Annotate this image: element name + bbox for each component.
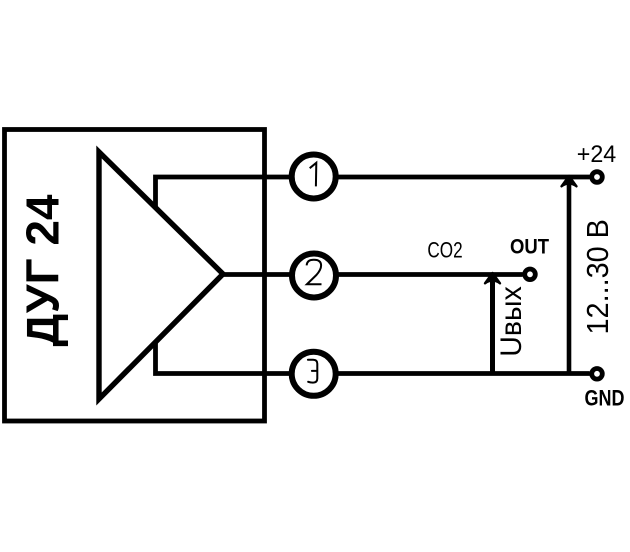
arrowhead up at +24 wire [562, 176, 577, 186]
terminal +24 open circle [592, 172, 603, 183]
wire pin2: from triangle apex to OUT terminal [222, 272, 523, 277]
svg-text:+24: +24 [577, 141, 616, 167]
pin number 1 [310, 163, 317, 187]
svg-text:GND: GND [585, 387, 625, 411]
svg-text:ДУГ 24: ДУГ 24 [17, 194, 69, 346]
arrowhead up at OUT wire [485, 273, 500, 283]
terminal circle pin 3 [292, 352, 336, 396]
device block U1 (ДУГ 24 sensor body) [5, 130, 265, 422]
svg-text:OUT: OUT [510, 235, 550, 259]
svg-text:12...30 В: 12...30 В [581, 219, 615, 334]
pin number 3 [308, 360, 317, 383]
wire pin3: from triangle bottom edge to GND terminal [156, 343, 590, 374]
svg-text:Uвых: Uвых [495, 286, 528, 357]
terminal circle pin 1 [292, 155, 336, 199]
wire pin1: from triangle top edge to +24 terminal [156, 177, 590, 208]
pin number 2 [307, 260, 322, 285]
transducer triangle symbol [99, 152, 223, 399]
terminal GND open circle [592, 369, 603, 380]
svg-text:CO2: CO2 [427, 239, 462, 264]
terminal circle pin 2 [292, 254, 336, 298]
terminal OUT open circle [525, 269, 536, 280]
Uvyh measure line between OUT wire and GND wire [490, 278, 495, 374]
supply measure line 12...30 B between +24 and GND [567, 179, 572, 374]
